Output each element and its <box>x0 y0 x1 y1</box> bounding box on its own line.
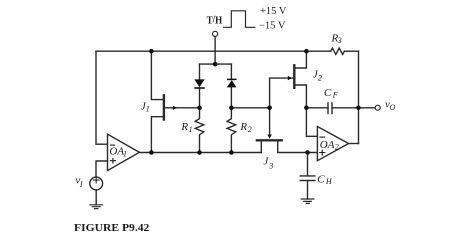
node dot J1 drain / top bus <box>149 49 154 54</box>
terminal T/H <box>213 31 218 36</box>
svg-text:FIGURE P9.42: FIGURE P9.42 <box>74 222 150 234</box>
wire node C up to J2 gate <box>270 78 293 108</box>
ground (below vI) <box>90 205 103 209</box>
terminal vO <box>375 105 380 110</box>
wire diode branch top <box>200 63 232 65</box>
svg-text:O: O <box>390 103 396 112</box>
ground (below CH) <box>301 199 314 203</box>
wire left diode cathode to node A <box>199 88 201 108</box>
resistor R2 <box>227 108 236 153</box>
wire CH to ground <box>307 181 309 200</box>
op-amp OA1 <box>108 134 140 170</box>
wire J1 gate to node A <box>165 107 200 109</box>
node dot R2 bottom <box>229 150 234 155</box>
arrow J1 gate <box>173 106 177 110</box>
transistor J3 (channel bar) <box>257 139 282 141</box>
wire top feedback bus left segment <box>96 50 331 52</box>
wire vI to ground <box>95 190 97 205</box>
svg-text:C: C <box>317 174 325 186</box>
node dot T/H <box>213 62 218 67</box>
wire left diode branch <box>199 64 201 79</box>
wire J2 drain lead to top bus <box>294 51 306 68</box>
svg-text:+15 V: +15 V <box>260 6 287 17</box>
svg-text:C: C <box>324 87 332 99</box>
capacitor CH <box>307 153 309 176</box>
node dot output <box>356 106 361 111</box>
svg-text:3: 3 <box>337 36 342 45</box>
wire right diode anode to node B <box>230 87 232 107</box>
diode D1 (left, anode up) <box>194 79 204 87</box>
wire OA1 output to bottom bus <box>139 152 261 154</box>
svg-text:2: 2 <box>318 74 322 83</box>
wire OA2 output stub <box>349 143 359 145</box>
node A dot <box>197 106 202 111</box>
wire T/H control line (crosses top bus) <box>214 37 216 65</box>
node B dot <box>229 106 234 111</box>
svg-text:3: 3 <box>268 161 273 170</box>
label OA1 <box>110 144 115 146</box>
wire output node to vO terminal <box>358 107 375 109</box>
svg-text:R: R <box>180 121 188 133</box>
transistor J1 (channel bar) <box>163 95 165 119</box>
svg-text:1: 1 <box>189 125 193 134</box>
wire OA1 noninverting input <box>96 161 108 177</box>
node dot OA1 output / J1 source <box>149 150 154 155</box>
wire J1 drain lead to top bus <box>151 51 164 99</box>
wire node B to node C <box>231 107 269 109</box>
arrow J3 gate <box>267 135 271 139</box>
svg-text:−15 V: −15 V <box>259 21 286 32</box>
wire top bus right of R3 <box>344 50 358 52</box>
svg-text:OA: OA <box>320 139 335 151</box>
wire J3 left lead <box>260 140 262 152</box>
node C dot <box>267 106 272 111</box>
wire right vertical from R3 corner to output node and OA2 output <box>358 51 360 143</box>
node dot CF left / J2 source <box>304 106 309 111</box>
svg-text:2: 2 <box>248 125 252 134</box>
T/H pulse waveform symbol <box>224 11 255 28</box>
resistor R1 <box>195 108 204 153</box>
node dot J2 drain / top bus <box>304 49 309 54</box>
svg-text:I: I <box>79 180 83 189</box>
op-amp OA2 <box>317 127 348 161</box>
diode D2 (right, cathode up) <box>227 79 237 81</box>
svg-text:T/H: T/H <box>207 14 223 27</box>
wire J3 right lead and bus to OA2 + input <box>278 140 318 152</box>
node dot CH / bus <box>305 150 310 155</box>
svg-text:H: H <box>325 177 333 186</box>
transistor J2 (channel bar) <box>293 65 295 88</box>
svg-text:1: 1 <box>146 105 150 114</box>
node dot R1 bottom <box>197 150 202 155</box>
wire J2 source lead down to CF node <box>294 85 306 108</box>
svg-text:2: 2 <box>335 142 339 151</box>
svg-text:R: R <box>239 121 247 133</box>
resistor R3 <box>331 48 345 54</box>
source vI <box>90 177 103 190</box>
arrow J2 gate <box>288 76 292 80</box>
wire OA2 inverting input from CF node <box>306 108 317 137</box>
svg-text:F: F <box>332 91 338 100</box>
wire left vertical feedback to OA1 inverting input <box>96 51 108 144</box>
svg-text:1: 1 <box>123 150 127 159</box>
label OA2 <box>319 136 325 138</box>
wire J1 source lead to bottom bus <box>151 117 164 153</box>
wire right diode branch <box>230 64 232 79</box>
wire node C down to J3 gate <box>269 108 271 135</box>
capacitor CF <box>306 107 358 109</box>
